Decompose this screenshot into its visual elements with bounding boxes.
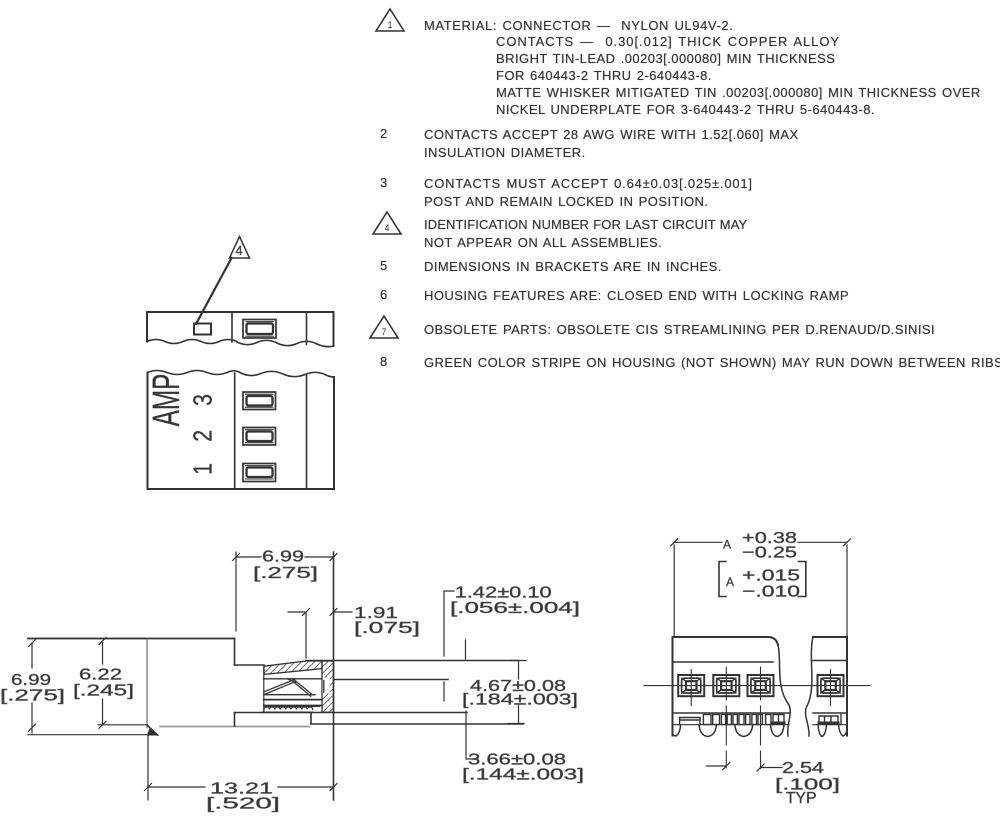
svg-text:2.54: 2.54 <box>782 760 824 777</box>
dim 3.66 bracket <box>466 711 478 759</box>
housing top edge <box>28 638 235 640</box>
ledge line <box>673 712 848 714</box>
dim A ticks <box>671 539 851 546</box>
dim 6.99 left: extension lines <box>28 639 152 735</box>
note 7 text <box>424 321 935 338</box>
foot cup 4 <box>771 725 785 737</box>
svg-text:6.99: 6.99 <box>262 549 304 566</box>
contact spring envelope inner <box>264 682 311 696</box>
horizontal centerline <box>644 685 870 687</box>
contact 1 centerline <box>690 670 692 706</box>
dim 6.99 top: extension line left <box>235 552 237 631</box>
slot circuit 1 chamfers <box>246 466 274 479</box>
housing bottom-left chamfer <box>147 725 158 735</box>
cavity top wall line <box>306 660 519 662</box>
foot left edge <box>673 725 681 736</box>
dim 13.21 ticks <box>145 784 338 791</box>
svg-text:[.520]: [.520] <box>206 796 280 813</box>
foot cup 2 <box>699 725 717 737</box>
slot circuit 2 chamfers <box>246 430 274 443</box>
contact last centerline <box>830 670 832 706</box>
note 1 text <box>424 17 733 34</box>
body outline left section <box>673 637 779 645</box>
leader line to identification pad <box>196 258 232 324</box>
ribs left section <box>680 715 784 725</box>
svg-text:6.22: 6.22 <box>79 667 122 684</box>
top hatched wall <box>264 661 322 674</box>
slot circuit 1 inner <box>247 468 273 478</box>
cavity notch edge <box>323 681 325 693</box>
lower piece divider 2 <box>306 376 308 490</box>
identification pad (small rect) <box>194 324 211 335</box>
svg-text:[.275]: [.275] <box>0 688 65 705</box>
svg-text:A: A <box>726 575 734 589</box>
dim 6.99 top: dimension line <box>236 556 334 558</box>
note 2 <box>380 126 388 141</box>
dim 6.99 left: dimension line <box>32 641 147 733</box>
lower piece outline <box>148 373 335 490</box>
contact top line <box>264 678 323 680</box>
upper slot chamfer lines <box>246 322 274 337</box>
svg-text:[.075]: [.075] <box>354 620 420 637</box>
upper band divider 1 <box>231 312 233 342</box>
housing step horizontal <box>235 664 265 666</box>
slot circuit 2 outer <box>243 428 276 446</box>
contact crimp X <box>287 679 296 683</box>
dim 1.91: dimension line segments <box>288 611 352 613</box>
note 6 <box>380 287 388 302</box>
housing pointed lip <box>148 729 159 736</box>
note 4 flag triangle <box>371 210 411 240</box>
cavity mouth line <box>334 679 449 681</box>
contact block left edge <box>263 666 265 712</box>
note 1 flag triangle <box>374 7 414 37</box>
svg-text:−.010: −.010 <box>742 584 800 601</box>
contact body lines <box>264 694 315 696</box>
dim 2.54: dimension lines <box>707 766 783 768</box>
svg-text:4: 4 <box>235 243 242 258</box>
dim 4.67 bracket <box>508 661 526 724</box>
dim 6.99/6.22 left ticks <box>29 638 107 732</box>
foot cup 3 <box>735 725 753 737</box>
svg-text:−0.25: −0.25 <box>742 545 797 562</box>
dim A: dimension line <box>674 541 847 543</box>
upper band break line (wavy bottom) <box>147 340 334 347</box>
svg-text:[.184±.003]: [.184±.003] <box>462 692 578 709</box>
note 8 <box>380 354 388 369</box>
note 7 flag triangle <box>368 314 408 344</box>
svg-text:+.015: +.015 <box>742 568 800 585</box>
contact last square <box>818 675 844 696</box>
contact 3 centerline (extends to dim) <box>760 667 762 769</box>
cavity notch in right wall <box>323 678 331 694</box>
housing ledge top <box>235 712 468 714</box>
svg-text:2: 2 <box>189 430 219 442</box>
dim 1.42: bracket and leaders <box>444 591 466 701</box>
svg-text:[.144±.003]: [.144±.003] <box>462 767 584 784</box>
note 5 <box>380 258 388 273</box>
contact 3 square <box>748 675 774 696</box>
slot circuit 3 inner <box>247 396 273 406</box>
housing ledge step <box>310 713 312 725</box>
housing ledge bottom extension <box>311 723 523 725</box>
svg-text:TYP: TYP <box>786 790 817 807</box>
housing step vertical <box>234 639 236 666</box>
dim 13.21: dimension line <box>148 786 334 788</box>
dim 2.54 ticks <box>723 763 764 772</box>
svg-text:[.245]: [.245] <box>73 683 134 700</box>
break line left <box>778 645 790 736</box>
dim A +0.38/-0.25: extension lines <box>674 545 847 637</box>
dim A inches labels <box>719 562 726 597</box>
lower piece break line (wavy top) <box>148 371 335 378</box>
contact block bottom <box>263 711 313 713</box>
break line right <box>806 637 813 736</box>
teeth row bottom line <box>673 724 848 726</box>
svg-text:1: 1 <box>189 463 219 475</box>
contact 2 centerline (extends to dim) <box>725 667 727 768</box>
upper band outline (broken-away top piece) <box>147 312 334 346</box>
upper slot outer <box>243 320 276 339</box>
slot circuit 3 outer <box>243 392 276 410</box>
upper slot inner <box>247 324 274 335</box>
note 4 text <box>424 216 747 252</box>
body left edge <box>672 637 674 736</box>
upper band divider 2 <box>306 312 308 345</box>
dim 1.91: extension line <box>305 612 307 658</box>
slot circuit 2 inner <box>247 432 273 442</box>
dim 1.91: ticks <box>303 609 338 616</box>
foot right edge <box>839 725 848 736</box>
housing bottom edge <box>160 726 309 728</box>
contact spring envelope <box>264 680 313 695</box>
svg-text:1.42±0.10: 1.42±0.10 <box>455 585 552 602</box>
housing ledge left vertical <box>234 713 236 727</box>
right hatched wall <box>322 661 334 712</box>
svg-text:6.99: 6.99 <box>11 672 51 689</box>
svg-text:A: A <box>723 538 731 552</box>
housing left edge <box>146 639 148 728</box>
dim 13.21: extension line left <box>147 736 149 800</box>
lower piece divider 1 <box>234 373 236 489</box>
slot circuit 1 outer <box>243 464 276 482</box>
svg-text:AMP: AMP <box>144 374 187 427</box>
body right edge <box>846 637 848 736</box>
dim 6.99 top: tick marks <box>233 554 338 561</box>
housing right edge / main extension line <box>333 552 335 800</box>
contact serrations <box>264 707 313 709</box>
slot circuit 3 chamfers <box>246 394 274 407</box>
band line <box>673 661 848 663</box>
ribs right section <box>819 715 841 725</box>
svg-text:[.275]: [.275] <box>253 565 318 582</box>
note-4 flag triangle on view <box>230 237 250 259</box>
note 3 <box>380 175 388 190</box>
body top edge right section <box>813 636 847 638</box>
svg-text:[.056±.004]: [.056±.004] <box>450 600 580 617</box>
svg-text:3: 3 <box>189 394 219 406</box>
foot cup right section <box>818 725 827 737</box>
contact 2 square <box>713 675 739 696</box>
contact 1 square <box>678 675 704 696</box>
